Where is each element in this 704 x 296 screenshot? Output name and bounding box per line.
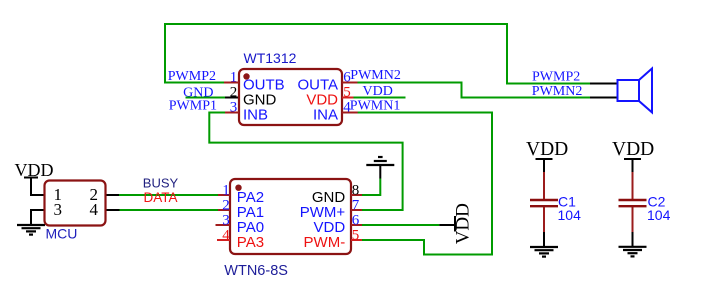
svg-text:PWMP2: PWMP2 [532,69,580,84]
svg-text:PWMP1: PWMP1 [169,98,217,113]
svg-text:PWMN1: PWMN1 [350,98,401,113]
svg-text:WTN6-8S: WTN6-8S [224,263,288,279]
svg-text:PWMN2: PWMN2 [532,84,583,99]
svg-text:2: 2 [230,84,238,100]
svg-text:MCU: MCU [46,225,78,241]
svg-text:3: 3 [222,213,230,229]
svg-text:DATA: DATA [144,190,178,205]
svg-text:PWM-: PWM- [304,234,346,251]
svg-text:6: 6 [343,70,351,86]
svg-text:VDD: VDD [612,139,654,160]
svg-text:BUSY: BUSY [143,176,179,191]
svg-text:PA3: PA3 [237,234,264,251]
svg-text:3: 3 [54,200,63,219]
svg-text:2: 2 [222,198,230,214]
svg-text:PWMN2: PWMN2 [350,68,401,83]
svg-text:VDD: VDD [363,84,393,99]
svg-text:6: 6 [352,213,360,229]
svg-text:WT1312: WT1312 [244,50,297,66]
svg-text:INA: INA [313,106,338,123]
svg-text:8: 8 [352,183,360,199]
svg-text:4: 4 [90,200,99,219]
svg-text:INB: INB [243,106,268,123]
svg-text:1: 1 [222,183,230,199]
svg-text:4: 4 [222,228,230,244]
svg-text:104: 104 [647,207,671,223]
svg-text:VDD: VDD [15,160,54,180]
svg-text:4: 4 [343,99,351,115]
svg-text:104: 104 [558,207,582,223]
svg-text:1: 1 [230,70,238,86]
svg-text:7: 7 [352,198,360,214]
svg-text:VDD: VDD [453,203,474,244]
svg-text:5: 5 [352,228,360,244]
svg-text:PWMP2: PWMP2 [168,69,216,84]
svg-text:VDD: VDD [526,139,568,160]
svg-text:5: 5 [343,84,351,100]
svg-text:3: 3 [230,99,238,115]
